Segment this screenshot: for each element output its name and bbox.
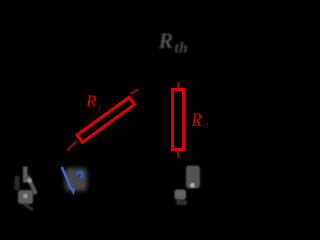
blue dot (contact) — [77, 172, 82, 177]
resistor R2 (vertical, highlighted red) — [173, 90, 184, 150]
square blob — [175, 190, 187, 200]
label Rth (gray, top right) — [158, 28, 189, 57]
blue arrow (wiper) — [62, 167, 72, 190]
node blob (gray, behind blue arrow) — [65, 168, 87, 191]
wire (lead of diagonal resistor, lower-left) — [67, 142, 77, 151]
lower blob — [18, 190, 33, 204]
bright dot BL2 — [23, 194, 28, 199]
svg-text:R: R — [158, 28, 174, 53]
svg-text:th: th — [175, 41, 189, 57]
vertical bar — [23, 167, 28, 183]
blue dot shade — [77, 175, 80, 178]
svg-text:1: 1 — [97, 103, 103, 115]
tall blob — [186, 166, 200, 189]
faint streak below — [176, 200, 187, 205]
wire (lead of vertical resistor, top) — [177, 82, 179, 88]
wire (lead of vertical resistor, bottom) — [177, 151, 179, 158]
svg-text:R: R — [191, 111, 202, 131]
svg-text:a: a — [203, 119, 209, 131]
bright dot BL1 — [27, 178, 32, 183]
tail stroke — [24, 204, 33, 210]
blue arrowhead — [70, 188, 75, 196]
label U1 cluster (gray, bottom left) — [15, 167, 37, 211]
wire (lead of diagonal resistor, upper-right) — [131, 89, 139, 94]
svg-text:R: R — [85, 92, 97, 111]
label U2 cluster (gray, bottom right) — [175, 166, 201, 206]
diagonal stroke — [28, 176, 37, 194]
bright dot BR — [190, 183, 195, 188]
faint left smear — [15, 176, 20, 190]
resistor R1 (diagonal, highlighted red) — [77, 97, 134, 142]
